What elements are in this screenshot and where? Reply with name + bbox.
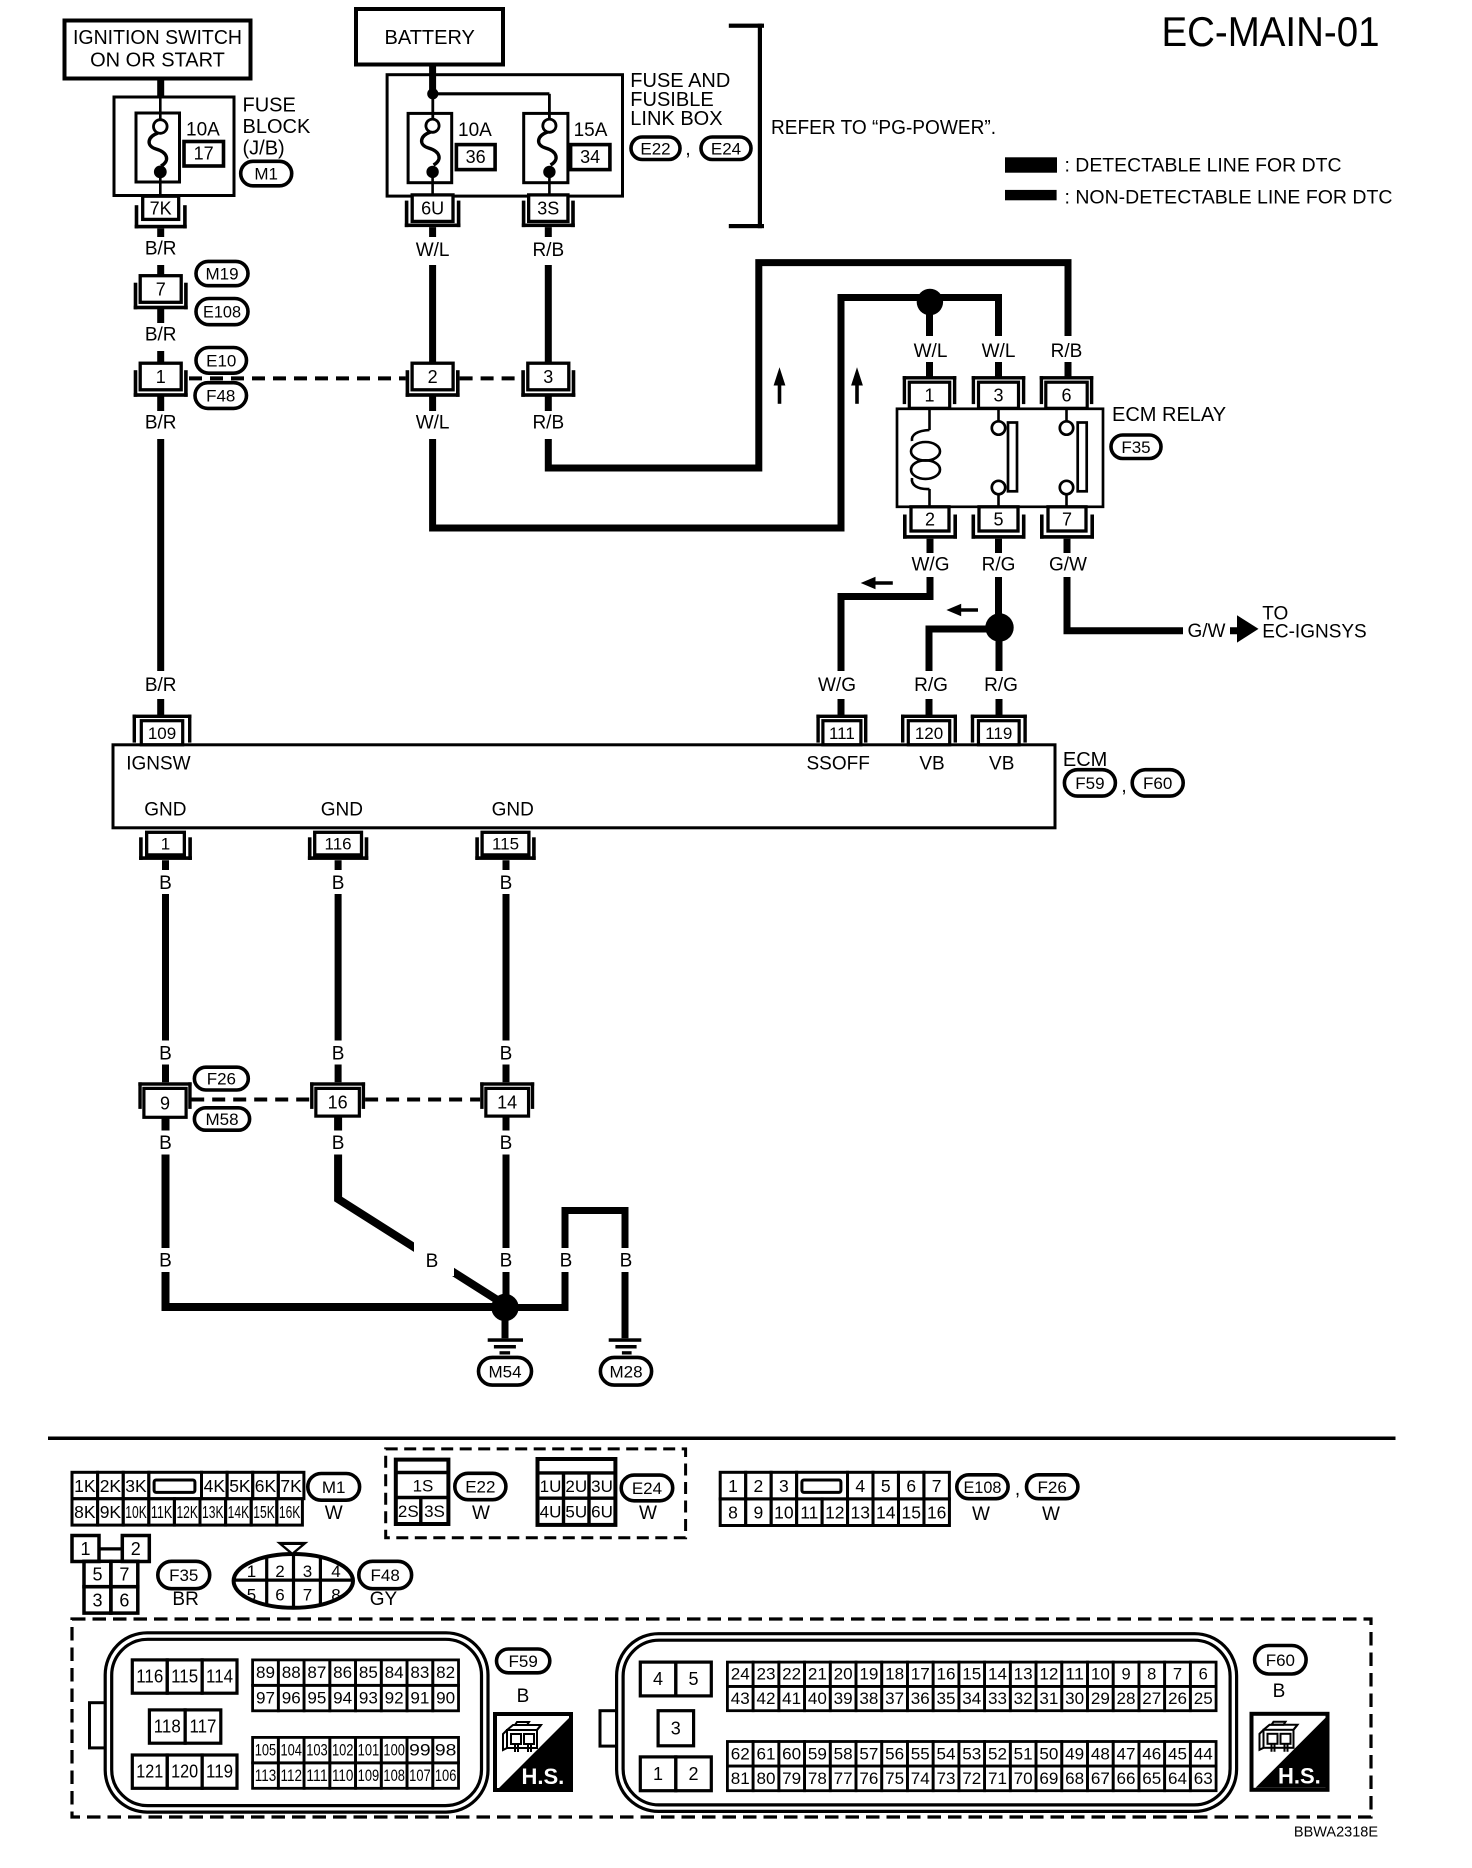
connector 3S — [522, 195, 575, 227]
svg-text:B/R: B/R — [145, 325, 177, 346]
svg-text:12: 12 — [1039, 1666, 1058, 1684]
svg-text:10: 10 — [774, 1503, 794, 1523]
svg-text:B: B — [159, 873, 172, 894]
connector 16 — [310, 1082, 365, 1116]
svg-text:R/B: R/B — [532, 413, 564, 434]
svg-text:106: 106 — [435, 1767, 457, 1785]
svg-text:M1: M1 — [254, 165, 278, 184]
svg-text:F26: F26 — [207, 1070, 236, 1089]
ECM connector F60 outline — [600, 1634, 1237, 1812]
svg-text:104: 104 — [280, 1742, 302, 1760]
svg-text:108: 108 — [383, 1767, 405, 1785]
svg-text:111: 111 — [829, 724, 855, 743]
svg-text:9: 9 — [1121, 1666, 1130, 1684]
svg-text:IGNSW: IGNSW — [126, 754, 190, 775]
connector ref oval F60 — [1132, 770, 1183, 796]
svg-text:36: 36 — [466, 147, 486, 167]
svg-text:109: 109 — [358, 1767, 380, 1785]
dashed link connector 1 to 2 to 3 — [189, 376, 521, 380]
svg-text:3: 3 — [993, 386, 1003, 406]
ECM relay box — [897, 409, 1103, 507]
svg-text:ON OR START: ON OR START — [90, 50, 225, 72]
fuse 36 10A symbol — [408, 113, 452, 195]
svg-text:58: 58 — [834, 1745, 853, 1763]
svg-text:84: 84 — [385, 1664, 404, 1682]
svg-text:38: 38 — [859, 1690, 878, 1708]
svg-text:51: 51 — [1014, 1745, 1033, 1763]
svg-text:9: 9 — [160, 1093, 170, 1113]
svg-text:120: 120 — [171, 1762, 198, 1782]
wire stub to ground M54 — [502, 1308, 509, 1339]
svg-text:4U: 4U — [540, 1502, 562, 1521]
svg-text:B: B — [426, 1251, 439, 1272]
svg-text:ECM: ECM — [1063, 749, 1107, 771]
svg-text:2: 2 — [131, 1539, 141, 1559]
svg-text:115: 115 — [171, 1667, 198, 1687]
svg-text:W: W — [1042, 1504, 1060, 1525]
fuse number box 34 — [571, 145, 610, 170]
flow arrow left on W/G — [861, 577, 893, 589]
svg-text:W: W — [972, 1504, 990, 1525]
svg-text:37: 37 — [885, 1690, 904, 1708]
wire W/L from fuse 6U to ECM relay pins 1 and 3 — [433, 227, 999, 528]
wire G/W from relay pin 7 to EC-IGNSYS — [1067, 539, 1237, 631]
svg-text:M19: M19 — [205, 265, 238, 284]
svg-text:: DETECTABLE LINE FOR DTC: : DETECTABLE LINE FOR DTC — [1065, 155, 1342, 177]
svg-text:49: 49 — [1065, 1745, 1084, 1763]
battery box — [356, 9, 503, 65]
svg-text:48: 48 — [1091, 1745, 1110, 1763]
svg-text:44: 44 — [1194, 1745, 1213, 1763]
svg-text:14: 14 — [497, 1093, 517, 1113]
svg-text:28: 28 — [1117, 1690, 1136, 1708]
H.S. mark F60 — [1252, 1714, 1328, 1790]
svg-text:W/G: W/G — [818, 675, 856, 696]
svg-text:F48: F48 — [371, 1566, 400, 1585]
connector ref oval E24 — [701, 137, 751, 160]
svg-text:83: 83 — [410, 1664, 429, 1682]
svg-text:5U: 5U — [565, 1502, 587, 1521]
connector grid E22 (1S/2S/3S) — [396, 1460, 449, 1524]
svg-text:95: 95 — [307, 1690, 326, 1708]
svg-text:10A: 10A — [186, 120, 220, 141]
svg-text:6U: 6U — [591, 1502, 613, 1521]
label FUSE AND FUSIBLE LINK BOX — [630, 70, 730, 130]
svg-text:46: 46 — [1142, 1745, 1161, 1763]
svg-text:,: , — [685, 139, 690, 160]
flow arrow left on R/G — [946, 604, 978, 616]
svg-text:W/L: W/L — [416, 413, 450, 434]
svg-text:98: 98 — [435, 1742, 457, 1760]
svg-text:7: 7 — [1173, 1666, 1182, 1684]
svg-text:86: 86 — [333, 1664, 352, 1682]
svg-text:97: 97 — [256, 1690, 275, 1708]
relay pin 6 — [1040, 376, 1094, 408]
svg-text:1: 1 — [247, 1562, 256, 1581]
ECM pin 109 — [133, 715, 192, 745]
svg-text:2U: 2U — [565, 1477, 587, 1496]
connector 3 — [521, 363, 575, 397]
connector ref oval F59 (bottom) — [497, 1649, 550, 1673]
dashed box around ECM connectors F59/F60 — [72, 1619, 1371, 1817]
svg-text:101: 101 — [358, 1742, 380, 1760]
svg-text:11: 11 — [800, 1503, 818, 1523]
svg-text:43: 43 — [731, 1690, 750, 1708]
svg-text:F60: F60 — [1266, 1651, 1295, 1670]
fuse number box 36 — [456, 145, 495, 170]
svg-text:4K: 4K — [204, 1476, 226, 1496]
svg-text:R/B: R/B — [1051, 341, 1083, 362]
svg-text:121: 121 — [136, 1762, 163, 1782]
svg-text:GND: GND — [321, 800, 363, 821]
svg-text:11K: 11K — [151, 1502, 173, 1522]
svg-text:91: 91 — [410, 1690, 429, 1708]
svg-text:29: 29 — [1091, 1690, 1110, 1708]
svg-text:90: 90 — [436, 1690, 455, 1708]
flow arrow up near W/L riser — [851, 367, 863, 404]
svg-text:94: 94 — [333, 1690, 352, 1708]
svg-text:3: 3 — [779, 1476, 789, 1496]
svg-text:M58: M58 — [205, 1110, 238, 1129]
svg-text:89: 89 — [256, 1664, 275, 1682]
svg-text:B: B — [1273, 1681, 1286, 1702]
svg-text:70: 70 — [1014, 1770, 1033, 1788]
svg-text:B: B — [500, 1133, 513, 1154]
relay contact pins 3-5 — [992, 409, 1017, 507]
svg-text:VB: VB — [989, 754, 1014, 775]
svg-text:EC-MAIN-01: EC-MAIN-01 — [1162, 8, 1380, 55]
svg-text:W: W — [472, 1503, 490, 1524]
svg-text:6: 6 — [906, 1476, 916, 1496]
ground ref oval M28 — [600, 1357, 651, 1385]
F60 pin grid 6-43 — [727, 1662, 1216, 1711]
ground symbol M28 — [609, 1338, 642, 1354]
svg-text:52: 52 — [988, 1745, 1007, 1763]
svg-text:G/W: G/W — [1188, 621, 1226, 642]
svg-text:7: 7 — [156, 279, 166, 299]
svg-text:B: B — [159, 1251, 172, 1272]
svg-text:F48: F48 — [206, 387, 235, 406]
svg-text:B: B — [500, 873, 513, 894]
ECM pin 111 — [816, 715, 867, 745]
svg-text:16K: 16K — [279, 1502, 301, 1522]
connector grid F35 — [72, 1536, 149, 1614]
svg-text:4: 4 — [653, 1669, 663, 1689]
svg-text:9: 9 — [754, 1503, 764, 1523]
svg-text:5: 5 — [247, 1586, 256, 1605]
svg-text:7: 7 — [1062, 509, 1072, 529]
svg-text:112: 112 — [280, 1767, 302, 1785]
junction dot ground — [491, 1294, 518, 1321]
svg-text:36: 36 — [911, 1690, 930, 1708]
connector 14 — [480, 1082, 534, 1116]
F59 pin grid 98-113 — [253, 1737, 459, 1788]
ECM connector F59 outline — [90, 1633, 489, 1812]
relay pin 7 — [1040, 507, 1094, 539]
svg-text:9K: 9K — [100, 1502, 122, 1522]
svg-text:103: 103 — [306, 1742, 328, 1760]
svg-text:53: 53 — [962, 1745, 981, 1763]
svg-text:LINK BOX: LINK BOX — [630, 108, 722, 130]
svg-text:68: 68 — [1065, 1770, 1084, 1788]
svg-text:34: 34 — [962, 1690, 981, 1708]
svg-text:87: 87 — [307, 1664, 326, 1682]
connector ref oval E108 (bottom) — [957, 1475, 1008, 1499]
svg-text:15A: 15A — [574, 120, 608, 141]
connector ref oval E22 — [631, 137, 680, 160]
wire B from ECM GND pin 116 via connector 16 to ground M54 — [338, 860, 506, 1305]
svg-text:3S: 3S — [537, 199, 559, 219]
svg-text:74: 74 — [911, 1770, 930, 1788]
svg-text:2: 2 — [428, 367, 438, 387]
svg-text:45: 45 — [1168, 1745, 1187, 1763]
svg-text:12: 12 — [825, 1503, 844, 1523]
ECM pin 116 GND — [308, 832, 368, 860]
svg-text:13: 13 — [1014, 1666, 1033, 1684]
svg-text:16: 16 — [328, 1093, 348, 1113]
svg-text:50: 50 — [1039, 1745, 1058, 1763]
svg-text:7: 7 — [932, 1476, 942, 1496]
junction dot W/L — [917, 289, 943, 315]
svg-text:22: 22 — [782, 1666, 801, 1684]
svg-text:13: 13 — [851, 1503, 870, 1523]
connector ref oval E108 — [196, 299, 248, 325]
wire B from ECM GND pin 1 via connector 9 to ground M54 — [166, 860, 506, 1307]
svg-text:W/L: W/L — [982, 341, 1016, 362]
svg-text:67: 67 — [1091, 1770, 1110, 1788]
svg-text:3: 3 — [303, 1562, 312, 1581]
svg-text:F26: F26 — [1038, 1478, 1067, 1497]
svg-text:27: 27 — [1142, 1690, 1161, 1708]
svg-text:3: 3 — [671, 1719, 681, 1739]
svg-text:17: 17 — [194, 144, 214, 164]
svg-text:79: 79 — [782, 1770, 801, 1788]
svg-text:62: 62 — [731, 1745, 750, 1763]
svg-text:1: 1 — [156, 367, 166, 387]
svg-text:B/R: B/R — [145, 675, 177, 696]
label FUSE BLOCK (J/B) — [243, 95, 311, 160]
connector ref oval E22 (bottom) — [455, 1473, 506, 1499]
wire W/G from relay pin 2 to ECM pin 111 — [841, 539, 930, 716]
flow arrow up near R/B riser — [774, 367, 786, 404]
svg-text:W/L: W/L — [416, 240, 450, 261]
F59 pin grid 89-97 — [253, 1660, 459, 1711]
svg-text:111: 111 — [306, 1767, 328, 1785]
svg-text:26: 26 — [1168, 1690, 1187, 1708]
connector grid F48 (oval) — [234, 1542, 353, 1608]
F59 pin cells 118 117 — [149, 1710, 220, 1743]
svg-text:1: 1 — [161, 835, 170, 854]
svg-text:47: 47 — [1117, 1745, 1136, 1763]
svg-text:16: 16 — [927, 1503, 946, 1523]
svg-text:R/G: R/G — [914, 675, 948, 696]
svg-text:5: 5 — [688, 1669, 698, 1689]
connector ref oval F48 — [195, 383, 247, 409]
svg-text:109: 109 — [148, 724, 176, 743]
relay contact pins 6-7 — [1060, 409, 1087, 507]
relay pin 1 — [903, 376, 957, 408]
relay pin 2 — [903, 507, 957, 539]
svg-text:3S: 3S — [424, 1502, 445, 1521]
svg-text:16: 16 — [937, 1666, 956, 1684]
svg-text:11: 11 — [1065, 1666, 1084, 1684]
svg-text:8K: 8K — [74, 1502, 96, 1522]
svg-text:1: 1 — [653, 1764, 663, 1784]
svg-text:: NON-DETECTABLE LINE FOR DTC: : NON-DETECTABLE LINE FOR DTC — [1065, 187, 1393, 209]
svg-text:2K: 2K — [100, 1476, 122, 1496]
svg-text:34: 34 — [580, 147, 600, 167]
label TO EC-IGNSYS — [1262, 604, 1367, 643]
wire B from ECM GND pin 115 via connector 14 to ground M54 — [503, 860, 510, 1307]
fuse 34 15A symbol — [524, 113, 568, 195]
svg-text:73: 73 — [937, 1770, 956, 1788]
ECM pin 119 — [971, 715, 1027, 745]
svg-text:55: 55 — [911, 1745, 930, 1763]
svg-text:119: 119 — [206, 1762, 233, 1782]
junction dot battery feed — [427, 88, 438, 99]
svg-text:59: 59 — [808, 1745, 827, 1763]
svg-text:14: 14 — [876, 1503, 896, 1523]
svg-text:EC-IGNSYS: EC-IGNSYS — [1262, 622, 1367, 643]
svg-text:2: 2 — [754, 1476, 764, 1496]
svg-text:GND: GND — [492, 800, 534, 821]
svg-text:60: 60 — [782, 1745, 801, 1763]
svg-text:F60: F60 — [1143, 774, 1172, 793]
svg-text:BATTERY: BATTERY — [385, 27, 475, 49]
svg-text:,: , — [1121, 776, 1126, 797]
svg-text:BR: BR — [172, 1589, 198, 1610]
svg-text:(J/B): (J/B) — [243, 138, 285, 160]
relay pin 5 — [972, 507, 1026, 539]
svg-text:1: 1 — [728, 1476, 738, 1496]
svg-text:88: 88 — [282, 1664, 301, 1682]
connector 2 — [406, 363, 460, 397]
svg-text:E108: E108 — [963, 1478, 1001, 1497]
connector 6U — [405, 195, 461, 227]
svg-text:R/G: R/G — [984, 675, 1018, 696]
F60 pin cells 1 2 — [640, 1757, 711, 1791]
svg-text:6U: 6U — [421, 199, 444, 219]
connector ref oval F35 (bottom) — [158, 1561, 210, 1588]
relay coil — [911, 409, 940, 507]
connector ref oval M19 — [196, 261, 248, 285]
ECM box — [113, 745, 1055, 828]
ECM pin function labels — [126, 754, 1014, 821]
svg-text:2: 2 — [275, 1562, 284, 1581]
svg-text:71: 71 — [988, 1770, 1007, 1788]
svg-text:25: 25 — [1194, 1690, 1213, 1708]
connector ref oval E10 — [196, 348, 247, 374]
svg-text:5K: 5K — [229, 1476, 251, 1496]
svg-text:4: 4 — [855, 1476, 865, 1496]
svg-text:17: 17 — [911, 1666, 930, 1684]
right bracket of fuse box callout — [729, 24, 764, 229]
svg-text:93: 93 — [359, 1690, 378, 1708]
svg-text:30: 30 — [1065, 1690, 1084, 1708]
svg-text:B: B — [517, 1686, 530, 1707]
svg-text:18: 18 — [885, 1666, 904, 1684]
svg-text:B: B — [500, 1044, 513, 1065]
svg-text:E22: E22 — [465, 1478, 495, 1497]
svg-text:E22: E22 — [640, 139, 670, 158]
F59 pin cells 121 120 119 — [132, 1755, 237, 1788]
wire battery to fuse box — [429, 65, 436, 94]
svg-text:2: 2 — [925, 509, 935, 529]
connector 1 (E10/F48) — [134, 363, 188, 397]
svg-text:1: 1 — [80, 1539, 90, 1559]
connector ref oval F26 — [194, 1067, 248, 1090]
svg-text:5: 5 — [92, 1565, 102, 1585]
svg-text:10: 10 — [1091, 1666, 1110, 1684]
svg-text:E24: E24 — [632, 1479, 662, 1498]
svg-text:81: 81 — [731, 1770, 750, 1788]
svg-text:15: 15 — [901, 1503, 920, 1523]
connector ref oval F59 — [1064, 770, 1115, 796]
svg-text:6: 6 — [119, 1591, 129, 1611]
svg-text:15: 15 — [962, 1666, 981, 1684]
separator line — [48, 1437, 1396, 1441]
svg-text:M28: M28 — [609, 1362, 642, 1381]
svg-text:GY: GY — [370, 1589, 398, 1610]
svg-text:10K: 10K — [125, 1502, 147, 1522]
fuse number box 17 — [184, 142, 224, 167]
svg-text:40: 40 — [808, 1690, 827, 1708]
svg-text:B: B — [332, 1044, 345, 1065]
svg-text:12K: 12K — [176, 1502, 198, 1522]
svg-text:VB: VB — [919, 754, 944, 775]
svg-text:5: 5 — [881, 1476, 891, 1496]
svg-text:B: B — [620, 1251, 633, 1272]
H.S. mark F59 — [495, 1714, 571, 1790]
svg-text:8: 8 — [1147, 1666, 1156, 1684]
svg-text:64: 64 — [1168, 1770, 1187, 1788]
ignition switch box — [65, 21, 251, 79]
svg-text:W: W — [325, 1503, 343, 1524]
svg-text:B: B — [159, 1044, 172, 1065]
svg-text:54: 54 — [937, 1745, 956, 1763]
connector 9 (F26/M58) — [138, 1082, 191, 1117]
svg-text:7: 7 — [119, 1565, 129, 1585]
svg-text:6: 6 — [1061, 386, 1071, 406]
svg-text:66: 66 — [1117, 1770, 1136, 1788]
svg-text:116: 116 — [325, 835, 352, 854]
svg-text:5: 5 — [993, 509, 1003, 529]
svg-text:57: 57 — [859, 1745, 878, 1763]
svg-text:M1: M1 — [322, 1478, 346, 1497]
svg-text:32: 32 — [1014, 1690, 1033, 1708]
svg-text:FUSE: FUSE — [243, 95, 296, 117]
arrow to EC-IGNSYS — [1237, 615, 1259, 642]
svg-text:2S: 2S — [398, 1502, 419, 1521]
svg-text:H.S.: H.S. — [521, 1764, 564, 1789]
svg-text:72: 72 — [962, 1770, 981, 1788]
branch wire to fuse 34 — [433, 94, 550, 119]
svg-text:4: 4 — [331, 1562, 340, 1581]
svg-text:W: W — [639, 1503, 657, 1524]
svg-text:E24: E24 — [711, 139, 741, 158]
svg-text:1S: 1S — [413, 1477, 434, 1496]
ground symbol M54 — [488, 1338, 523, 1354]
svg-text:63: 63 — [1194, 1770, 1213, 1788]
svg-text:42: 42 — [756, 1690, 775, 1708]
svg-text:GND: GND — [144, 800, 186, 821]
fuse block M1 box — [114, 97, 234, 196]
ground ref oval M54 — [479, 1357, 532, 1385]
svg-text:7K: 7K — [150, 198, 172, 218]
svg-text:105: 105 — [255, 1742, 277, 1760]
svg-text:85: 85 — [359, 1664, 378, 1682]
svg-text:F59: F59 — [1075, 774, 1104, 793]
